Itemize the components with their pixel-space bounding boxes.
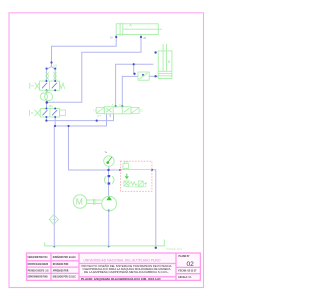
port mark branch left (46, 68, 48, 70)
coupling X pair upper (46, 72, 57, 79)
wire pump to tank (108, 211, 110, 248)
motor M1 (73, 195, 86, 208)
cylinder A body (116, 23, 162, 36)
junction node tank pump stub (108, 245, 110, 247)
valve V1B pilot box right (60, 110, 66, 116)
junction node L1 mid (96, 120, 98, 122)
filter F1 diamond (49, 215, 58, 225)
wire circles to valve 1B (46, 100, 48, 108)
flow control valve body (138, 72, 149, 80)
valve V2 solenoid left (96, 107, 104, 113)
port mark branch right (54, 68, 56, 70)
gauge needle hub (106, 161, 109, 164)
pump outlet triangle (106, 196, 112, 200)
filter mesh line (51, 219, 58, 221)
valve V2 body 4/3 (104, 107, 131, 114)
cylinder B body (158, 44, 172, 79)
junction node tank right stub (155, 247, 157, 249)
junction node tank left stub (53, 245, 55, 247)
valve V1B actuator X (35, 110, 41, 116)
valve V1A actuator X (35, 83, 40, 90)
svg-text:INTERCAMBIADOR: INTERCAMBIADOR (127, 186, 147, 189)
wire L1 tank line valve1B to valve2 (46, 114, 113, 121)
wire return from cooler box to tank (152, 170, 156, 248)
wire flow valve to cylinder B bottom port (149, 75, 158, 77)
cooler internal line (121, 168, 152, 170)
junction node cylinder B bottom port (154, 75, 156, 77)
page background (0, 0, 212, 300)
svg-text:PLANO: ESQUEMA OLEOHIDRAULICO: PLANO: ESQUEMA OLEOHIDRAULICO CIR. XXX H… (81, 278, 161, 281)
wire branch to flow valve (133, 64, 135, 73)
junction node flow valve centre (142, 74, 144, 76)
junction node 1A (50, 61, 52, 63)
svg-text:DISEÑADO POR: E.E.B.C: DISEÑADO POR: E.E.B.C (53, 256, 76, 259)
wire W1 cylinder A left port to valve group 1 (52, 35, 117, 67)
gauge circles pair (40, 93, 47, 100)
junction node cylinder B top port (154, 51, 156, 53)
valve V1B lever bar (30, 110, 34, 116)
valve V1B body (40, 109, 59, 118)
wire valve2 port A riser (116, 64, 154, 106)
down arrow (125, 174, 128, 179)
gauge top tick (105, 152, 107, 153)
svg-text:DEPARTAMENTO PUNO: DEPARTAMENTO PUNO (28, 276, 48, 279)
svg-text:FECHA: 02-11-17: FECHA: 02-11-17 (178, 270, 197, 273)
level gauge box (123, 162, 129, 169)
valve V1B port dots (45, 108, 47, 110)
valve V1A arrows (42, 83, 57, 89)
valve V1B arrows (42, 110, 57, 115)
svg-text:ESCALA: 1:1: ESCALA: 1:1 (178, 276, 192, 279)
shaft coupling (87, 199, 102, 205)
junction node cylinder A left port (115, 36, 117, 38)
svg-text:1B1: 1B1 (49, 105, 54, 108)
coupling X below valve V1A (46, 90, 49, 93)
flow meter port top (108, 175, 111, 177)
title block outer (27, 253, 201, 280)
wire pump suction column (108, 170, 110, 196)
junction node L1 left (45, 120, 47, 122)
svg-text:DE LA EMPRESA CARPINTERIA META: DE LA EMPRESA CARPINTERIA METALICA FABRI… (84, 271, 169, 274)
junction node valve2 port B (121, 105, 123, 107)
svg-text:UNIVERSIDAD NACIONAL DEL ALTIP: UNIVERSIDAD NACIONAL DEL ALTIPLANO PUNO (84, 259, 161, 263)
svg-text:TANQUE 100 L: TANQUE 100 L (166, 248, 183, 251)
valve V1A lever bar (30, 83, 34, 89)
gauge circle (104, 156, 114, 166)
svg-text:02: 02 (187, 261, 195, 268)
junction node box outlet (151, 169, 153, 171)
junction node L2 riser (67, 125, 69, 127)
svg-text:UBICACION POLITICA: UBICACION POLITICA (28, 256, 48, 259)
cooler dashed enclosure (121, 161, 152, 191)
flow meter port bottom (108, 182, 111, 184)
junction node L2 left (54, 125, 56, 127)
wire W2 cylinder A right port to node 1B1 (47, 35, 141, 103)
flow meter arcs (104, 176, 106, 183)
svg-text:P T: P T (98, 115, 102, 118)
svg-text:APROBADO POR:: APROBADO POR: (53, 269, 69, 272)
wire riser pump to L2 (69, 126, 121, 170)
junction node 1B1 (46, 101, 49, 104)
svg-text:2B: 2B (143, 38, 146, 40)
junction node valve2 port A (115, 105, 117, 107)
tank reservoir (45, 240, 165, 246)
wire drain to filter and tank (53, 126, 55, 248)
svg-text:1A1: 1A1 (53, 65, 58, 68)
valve V1A spring right (59, 83, 64, 89)
svg-text:2A: 2A (110, 37, 113, 40)
wire chain through couplings valve 1A to circles (46, 90, 48, 93)
border frame magenta (9, 13, 204, 288)
junction node pump drain (108, 210, 110, 212)
svg-text:REVISADO POR:: REVISADO POR: (53, 263, 69, 266)
wire L2 pressure line (55, 114, 106, 126)
pump P1 (102, 196, 117, 211)
junction node flow branch bottom (133, 73, 135, 75)
valve V1A port dots (45, 80, 47, 82)
junction node flow branch top (133, 63, 135, 65)
svg-text:PLANO N°: PLANO N° (179, 255, 190, 258)
gauge needle (107, 157, 112, 163)
svg-text:DIBUJADO POR: E.E.B.C: DIBUJADO POR: E.E.B.C (53, 276, 76, 279)
svg-text:M: M (76, 197, 83, 207)
junction node cylinder A right port (140, 36, 142, 38)
wire valve2 tank stub (109, 114, 111, 117)
wire branch diagonals under node 1A (47, 67, 52, 82)
junction node pump top (107, 169, 109, 171)
valve V2 solenoid right (131, 107, 139, 113)
wire relief valve stub (108, 166, 110, 170)
cooler bottom cluster (124, 181, 147, 186)
svg-text:DISTRITO DESAGUADERO: DISTRITO DESAGUADERO (28, 263, 49, 266)
wire valve2 port B riser (122, 76, 138, 106)
svg-text:PROVINCIA CHUCUITO - JULI: PROVINCIA CHUCUITO - JULI (28, 269, 49, 272)
valve V1A body (40, 81, 60, 90)
junction node box inlet (119, 169, 121, 171)
